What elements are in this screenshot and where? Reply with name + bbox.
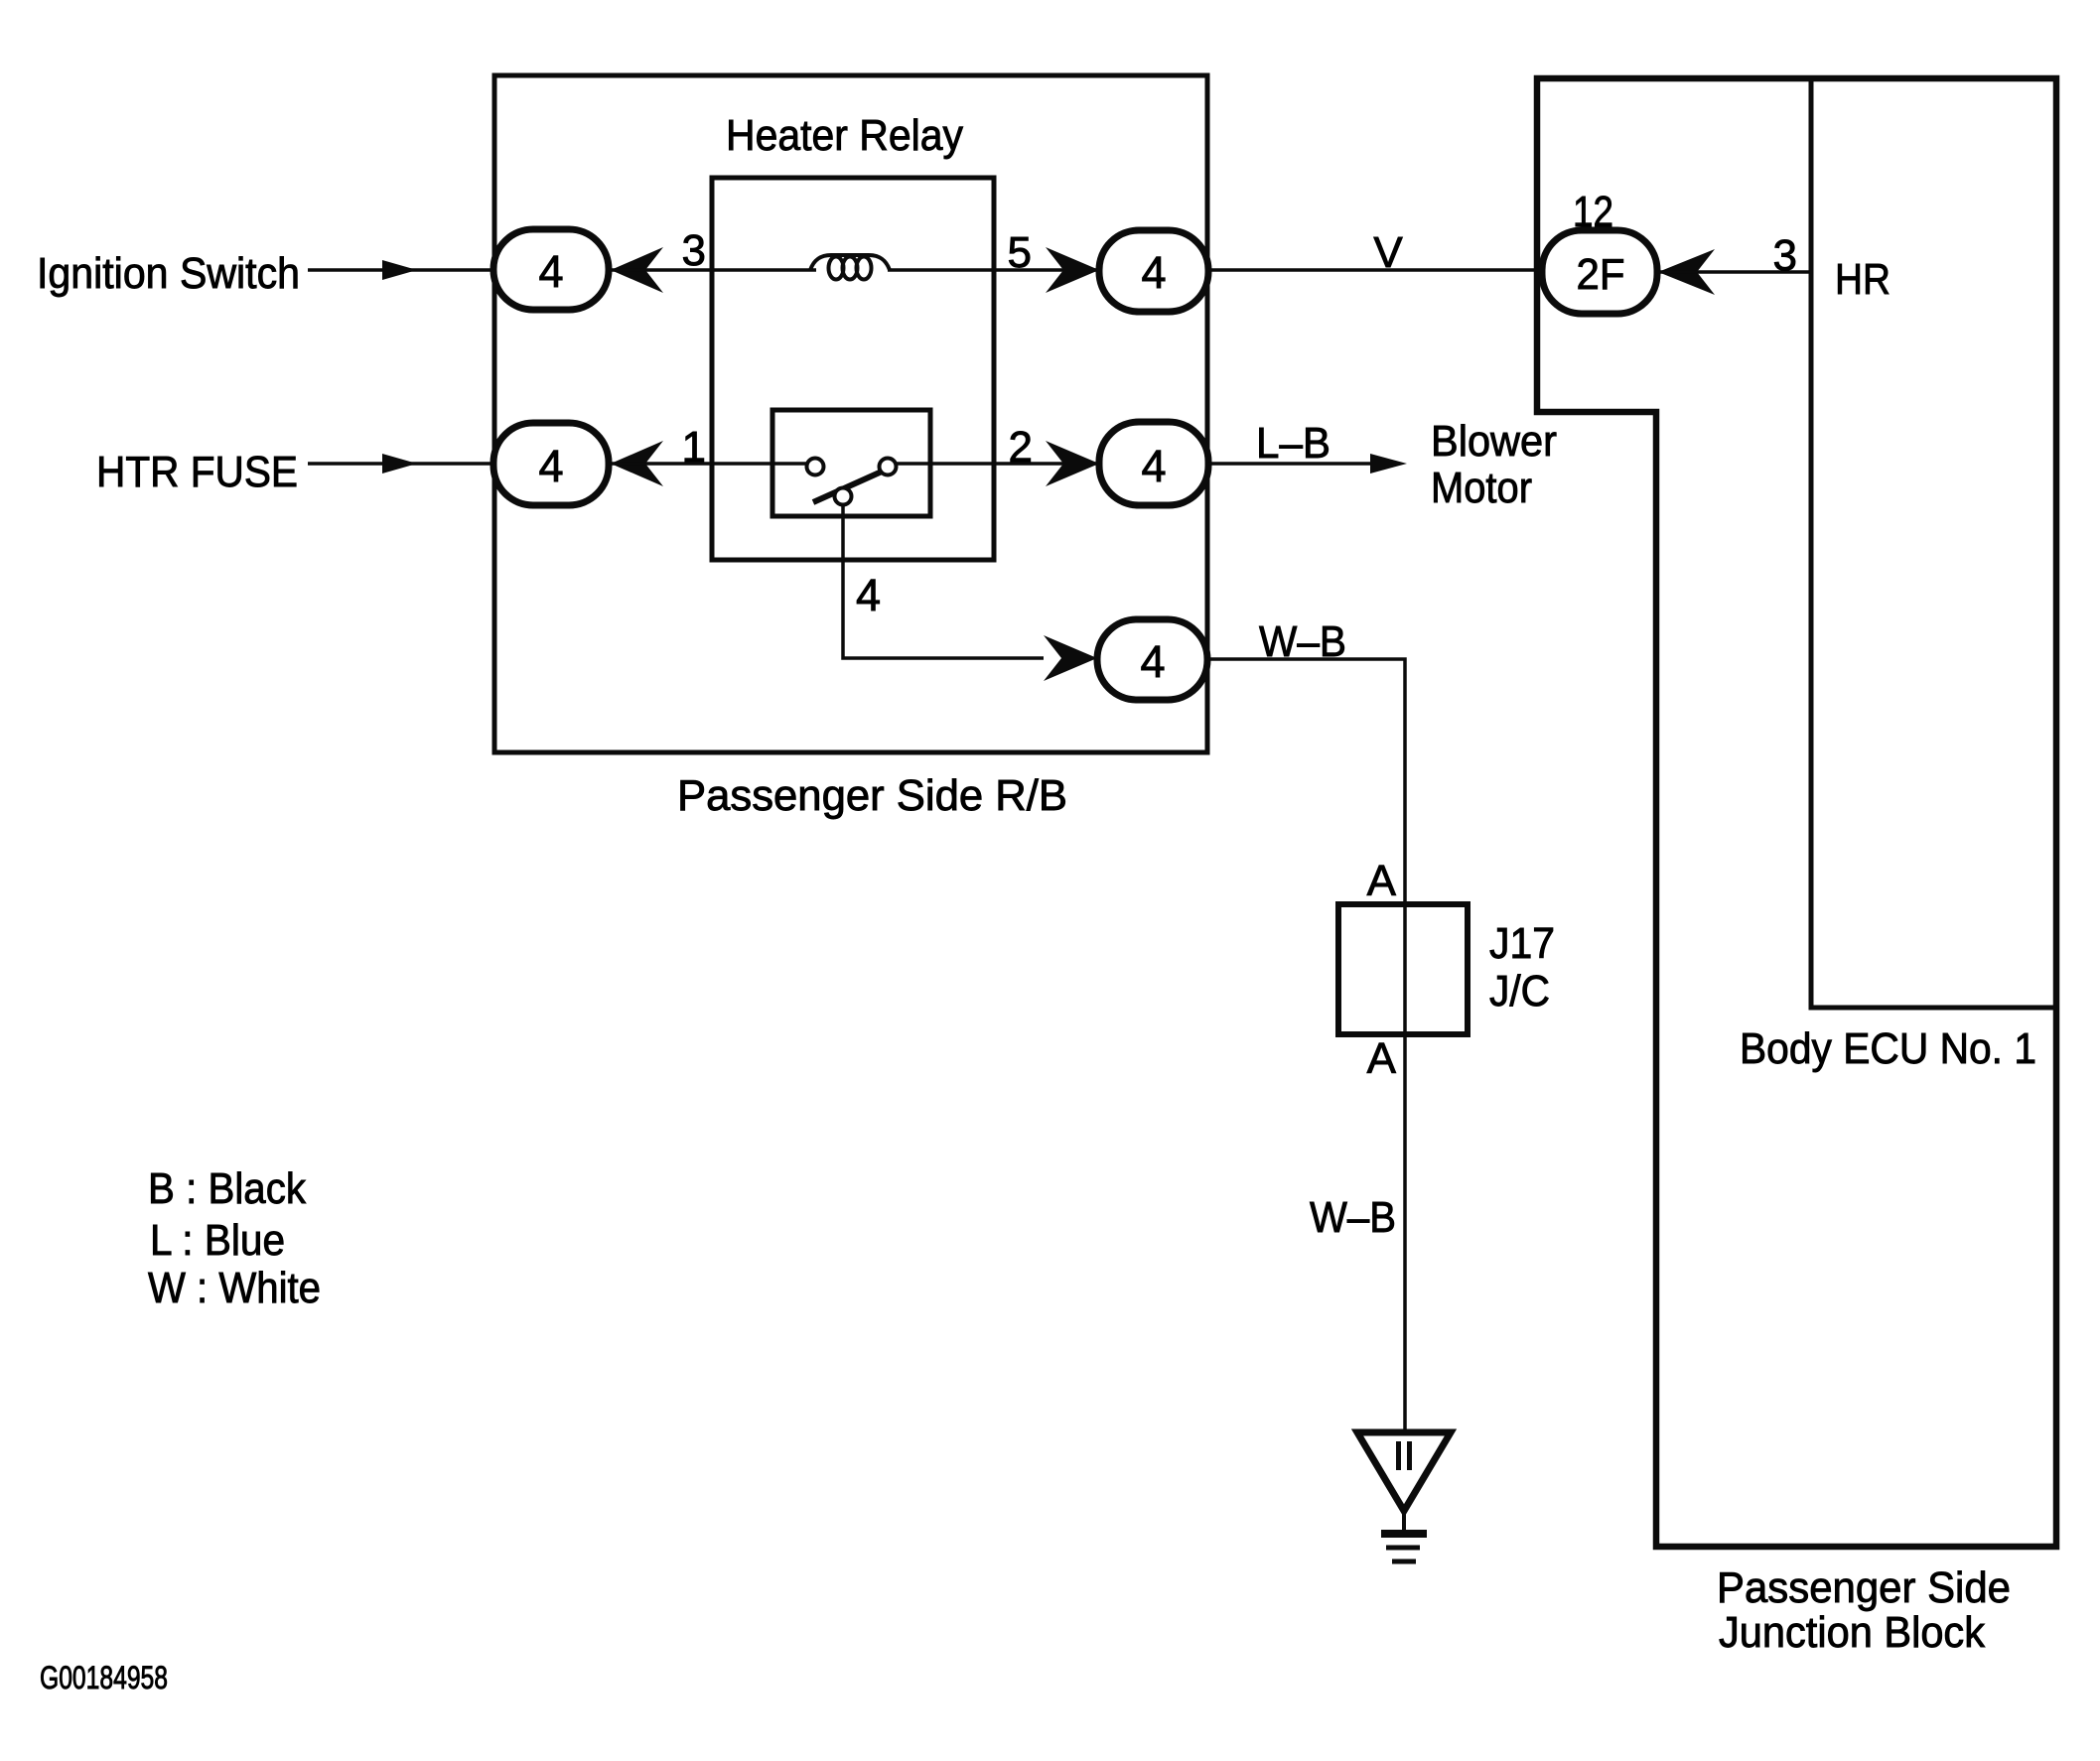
switch contact left (807, 459, 824, 475)
connector 2F (1542, 230, 1657, 314)
heater relay box (712, 178, 994, 560)
svg-text:J/C: J/C (1489, 967, 1550, 1016)
arrow into pin 3 (611, 247, 663, 293)
wire from ignition switch (308, 268, 493, 272)
svg-text:Passenger Side: Passenger Side (1717, 1563, 2011, 1612)
svg-text:3: 3 (1773, 231, 1797, 280)
svg-text:J17: J17 (1489, 919, 1555, 968)
svg-text:A: A (1367, 1034, 1397, 1083)
arrow into pin 4 (row3) (1044, 635, 1097, 681)
svg-text:HR: HR (1835, 255, 1890, 304)
svg-text:4: 4 (1141, 247, 1166, 298)
svg-text:Junction Block: Junction Block (1719, 1608, 1986, 1657)
connector pin 4 (row2 left) (493, 423, 609, 505)
connector pin 4 (row1 left) (493, 229, 609, 310)
wire W-B horizontal (1207, 659, 1405, 906)
svg-text:L : Blue: L : Blue (150, 1216, 285, 1265)
arrow into 2F (1658, 249, 1715, 295)
wire coil to pin 5 (888, 268, 1099, 272)
wire L-B (1208, 462, 1372, 466)
Body ECU No. 1 divider (1811, 78, 2056, 1008)
wire 2F to HR (1658, 270, 1811, 274)
svg-text:B : Black: B : Black (148, 1164, 307, 1213)
wire pin1 to switch (609, 462, 816, 466)
svg-text:W–B: W–B (1310, 1193, 1396, 1242)
svg-text:4: 4 (1140, 636, 1165, 687)
connector pin 4 (row1 right) (1099, 230, 1208, 312)
arrow out of pin 2 (1046, 441, 1099, 486)
arrow into pin 1 (611, 441, 663, 486)
Passenger Side R/B box (494, 75, 1207, 752)
wire through J17 (1403, 904, 1407, 1034)
svg-text:A: A (1367, 857, 1397, 905)
junction connector J17 box (1338, 904, 1468, 1034)
relay switch box (772, 410, 930, 516)
svg-text:2: 2 (1009, 423, 1033, 472)
svg-text:4: 4 (538, 246, 563, 297)
svg-text:4: 4 (856, 570, 881, 620)
arrow to blower motor (1370, 454, 1407, 474)
svg-text:W : White: W : White (148, 1264, 321, 1312)
svg-text:5: 5 (1008, 228, 1032, 277)
ground hatch (1381, 1530, 1427, 1538)
connector pin 4 (row2 right) (1099, 422, 1208, 505)
svg-text:Passenger Side R/B: Passenger Side R/B (677, 771, 1067, 820)
svg-text:Body ECU No. 1: Body ECU No. 1 (1740, 1024, 2036, 1073)
svg-text:HTR FUSE: HTR FUSE (96, 448, 298, 496)
svg-text:2F: 2F (1577, 250, 1625, 299)
svg-text:L–B: L–B (1256, 419, 1330, 468)
svg-text:W–B: W–B (1259, 617, 1346, 666)
wire switch to pin 2 (897, 462, 1099, 466)
ground stem (1402, 1511, 1406, 1532)
junction block outline (Passenger Side Junction Block) (1537, 78, 2056, 1547)
svg-text:Heater Relay: Heater Relay (726, 111, 963, 160)
svg-text:4: 4 (1141, 441, 1166, 491)
wire pin3 to coil (609, 268, 816, 272)
svg-text:G00184958: G00184958 (40, 1660, 168, 1695)
svg-text:V: V (1373, 228, 1403, 277)
switch pivot contact (835, 488, 852, 505)
wire pin4 down and right (843, 504, 1044, 658)
svg-text:Motor: Motor (1431, 464, 1532, 512)
ground triangle (1357, 1432, 1451, 1511)
relay coil (810, 255, 890, 280)
svg-text:Ignition Switch: Ignition Switch (37, 249, 300, 298)
arrow out of pin 5 (1046, 247, 1099, 293)
wire to ground (1403, 1034, 1407, 1432)
switch lever (813, 472, 882, 502)
connector pin 4 (row3) (1097, 619, 1207, 700)
wire from HTR fuse (308, 462, 493, 466)
switch contact right (880, 459, 897, 475)
svg-text:Blower: Blower (1431, 417, 1557, 466)
svg-text:3: 3 (682, 226, 706, 275)
ground II marking (1396, 1441, 1401, 1470)
svg-text:4: 4 (538, 441, 563, 491)
wire V (1208, 268, 1545, 272)
